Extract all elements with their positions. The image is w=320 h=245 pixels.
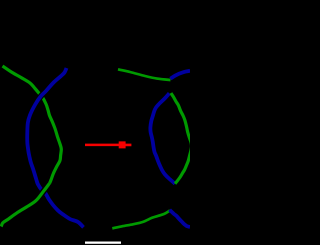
left tangle: blue strand — [27, 68, 83, 227]
right tangle: green top segment — [118, 69, 171, 80]
left tangle: green over-segment at lower crossing — [1, 183, 49, 226]
left tangle: green over-segment casing at lower crossing — [1, 183, 49, 226]
right tangle bottom: green rising segment — [112, 210, 170, 228]
red arrow — [85, 141, 131, 148]
left tangle: blue strand casing (over at upper crossing) — [27, 68, 83, 227]
right tangle: green right arc (clipped at right edge) — [171, 93, 192, 184]
white bar at bottom — [85, 242, 121, 244]
right tangle: blue top-right segment — [170, 71, 190, 79]
left tangle: green strand (under at upper crossing) — [1, 66, 61, 227]
right tangle: blue left arc — [150, 93, 175, 183]
right tangle bottom: blue falling segment — [170, 210, 190, 227]
